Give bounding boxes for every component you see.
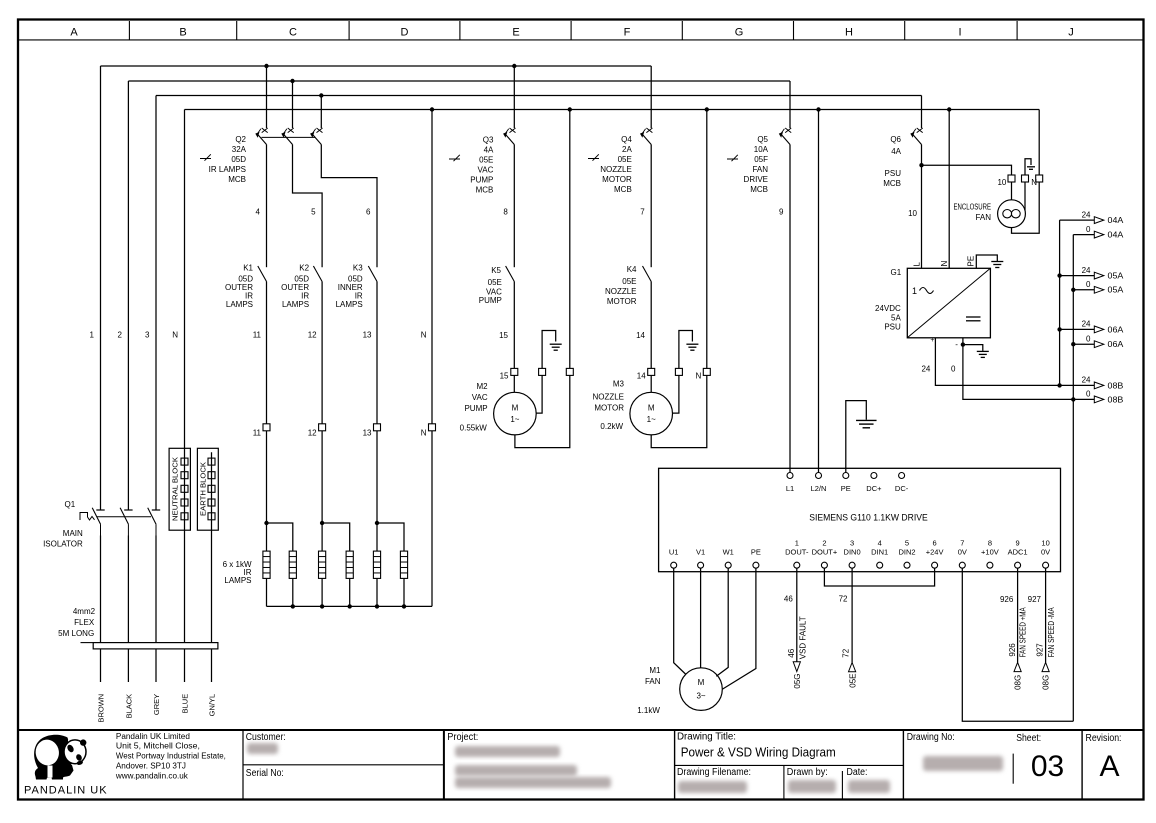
contactor K1 05D OUTER IR LAMPS bbox=[225, 264, 267, 309]
motor M3 NOZZLE MOTOR 0.2kW bbox=[592, 379, 672, 435]
MCB Q3 4A VAC PUMP bbox=[449, 128, 516, 195]
svg-text:PUMP: PUMP bbox=[464, 404, 487, 413]
svg-text:M3: M3 bbox=[613, 379, 625, 388]
off-page reference 08B 24 bbox=[1060, 376, 1124, 391]
svg-text:46: 46 bbox=[784, 594, 793, 603]
svg-text:M: M bbox=[648, 404, 655, 413]
svg-text:DOUT-: DOUT- bbox=[785, 547, 809, 556]
svg-text:N: N bbox=[1031, 178, 1037, 187]
svg-text:MCB: MCB bbox=[228, 175, 246, 184]
svg-text:M: M bbox=[512, 404, 519, 413]
svg-text:BLUE: BLUE bbox=[180, 694, 189, 714]
svg-text:6: 6 bbox=[933, 538, 937, 547]
svg-text:14: 14 bbox=[636, 331, 645, 340]
ground at G1 PE input bbox=[976, 255, 1003, 268]
wire 4 bbox=[256, 145, 267, 268]
wire 8 bbox=[503, 145, 514, 268]
svg-text:PE: PE bbox=[841, 484, 851, 493]
signal wire 927 FAN SPEED -MA from 08G bbox=[1028, 568, 1057, 690]
drive terminal PE bbox=[751, 547, 761, 568]
svg-text:L: L bbox=[912, 262, 921, 267]
terminal N M2 bbox=[566, 368, 573, 375]
svg-text:Date:: Date: bbox=[847, 767, 868, 778]
svg-text:-: - bbox=[955, 340, 958, 349]
svg-text:GN/YL: GN/YL bbox=[207, 694, 216, 717]
svg-text:D: D bbox=[401, 26, 409, 38]
svg-text:05F: 05F bbox=[754, 155, 768, 164]
svg-text:3: 3 bbox=[850, 538, 854, 547]
svg-text:24: 24 bbox=[1082, 320, 1091, 329]
svg-text:Drawing Filename:: Drawing Filename: bbox=[677, 767, 751, 778]
drive terminal 9 ADC1 bbox=[1008, 538, 1028, 568]
svg-text:NOZZLE: NOZZLE bbox=[592, 392, 624, 401]
drive terminal 5 DIN2 bbox=[898, 538, 915, 568]
ground for M3 earth terminal bbox=[679, 331, 699, 369]
svg-text:LAMPS: LAMPS bbox=[282, 300, 309, 309]
svg-text:10: 10 bbox=[1041, 538, 1049, 547]
svg-text:DIN1: DIN1 bbox=[871, 547, 888, 556]
contactor K4 05E NOZZLE MOTOR bbox=[605, 265, 651, 306]
drive terminal PE bbox=[841, 473, 851, 493]
svg-text:10: 10 bbox=[908, 209, 917, 218]
svg-text:24: 24 bbox=[1082, 210, 1091, 219]
svg-text:N: N bbox=[696, 372, 702, 381]
cable 4mm2 FLEX 5M LONG bbox=[58, 607, 218, 649]
svg-text:MAIN: MAIN bbox=[63, 529, 83, 538]
svg-text:www.pandalin.co.uk: www.pandalin.co.uk bbox=[115, 771, 189, 780]
svg-text:04A: 04A bbox=[1108, 216, 1125, 225]
drive terminal 7 0V bbox=[958, 538, 967, 568]
wire fan supply bbox=[1011, 182, 1013, 200]
svg-text:BROWN: BROWN bbox=[96, 694, 105, 723]
terminal earth M3 bbox=[675, 368, 682, 375]
svg-text:08G: 08G bbox=[1014, 675, 1023, 690]
lamp 6 bbox=[400, 551, 407, 578]
svg-text:926: 926 bbox=[1008, 643, 1017, 657]
drive terminal L1 bbox=[786, 473, 794, 493]
svg-text:EARTH BLOCK: EARTH BLOCK bbox=[199, 462, 208, 516]
svg-text:11: 11 bbox=[253, 429, 262, 438]
svg-text:05A: 05A bbox=[1108, 272, 1125, 281]
lamp 5 bbox=[373, 551, 380, 578]
svg-text:13: 13 bbox=[363, 331, 372, 340]
svg-text:MCB: MCB bbox=[883, 179, 901, 188]
svg-text:ISOLATOR: ISOLATOR bbox=[43, 539, 83, 548]
svg-text:14: 14 bbox=[637, 372, 646, 381]
svg-text:Drawing Title:: Drawing Title: bbox=[677, 731, 736, 742]
customer cell bbox=[246, 732, 286, 779]
svg-text:LAMPS: LAMPS bbox=[336, 300, 363, 309]
svg-text:C: C bbox=[289, 26, 297, 38]
wire drive PE to ground bbox=[846, 401, 867, 473]
drive terminal W1 bbox=[723, 547, 734, 568]
svg-text:IR LAMPS: IR LAMPS bbox=[209, 165, 246, 174]
svg-text:05E: 05E bbox=[479, 155, 493, 164]
svg-text:0.55kW: 0.55kW bbox=[460, 424, 488, 433]
svg-text:+: + bbox=[930, 337, 934, 344]
drive terminal 1 DOUT- bbox=[785, 538, 809, 568]
signal wire 72 from 05E to DIN0 bbox=[839, 568, 858, 688]
svg-text:2: 2 bbox=[822, 538, 826, 547]
wire PE to motor M1 bbox=[723, 568, 756, 689]
title block bbox=[18, 730, 1144, 800]
svg-text:46: 46 bbox=[787, 648, 796, 657]
MCB Q6 4A PSU bbox=[883, 128, 922, 188]
wire from L2 to Q5 bbox=[789, 81, 791, 128]
svg-text:DRIVE: DRIVE bbox=[744, 175, 768, 184]
svg-text:DC-: DC- bbox=[895, 484, 909, 493]
wire 3 GREY below Q1 bbox=[145, 331, 161, 716]
svg-text:GREY: GREY bbox=[152, 694, 161, 715]
svg-text:0: 0 bbox=[951, 364, 956, 373]
svg-text:G: G bbox=[735, 26, 744, 38]
ground for M2 earth terminal bbox=[542, 331, 562, 369]
svg-text:G1: G1 bbox=[891, 268, 902, 277]
wire phase 3 drop to Q1 bbox=[155, 96, 157, 511]
wire drive 0V return loop bbox=[962, 568, 1073, 721]
svg-text:5: 5 bbox=[311, 208, 316, 217]
svg-text:Revision:: Revision: bbox=[1086, 733, 1122, 744]
svg-text:7: 7 bbox=[960, 538, 964, 547]
svg-text:927: 927 bbox=[1028, 595, 1042, 604]
svg-text:08B: 08B bbox=[1108, 395, 1124, 404]
off-page reference 06A 24 bbox=[1060, 320, 1124, 335]
wire M2 neutral return bbox=[515, 375, 570, 447]
svg-text:K1: K1 bbox=[243, 264, 253, 273]
svg-text:BLACK: BLACK bbox=[124, 694, 133, 719]
drive terminal V1 bbox=[696, 547, 705, 568]
svg-text:LAMPS: LAMPS bbox=[224, 576, 251, 585]
logo panda PANDALIN UK bbox=[24, 735, 108, 797]
off-page reference 04A 24 bbox=[1060, 210, 1124, 225]
terminal 11 bbox=[253, 424, 270, 438]
drive terminal 10 0V bbox=[1041, 538, 1050, 568]
off-page reference 06A 0 bbox=[1073, 334, 1124, 349]
svg-text:13: 13 bbox=[363, 429, 372, 438]
svg-text:J: J bbox=[1068, 26, 1074, 38]
svg-text:MCB: MCB bbox=[476, 186, 494, 195]
drive terminal 3 DIN0 bbox=[844, 538, 861, 568]
svg-text:F: F bbox=[624, 26, 631, 38]
wire from L1 to Q4 bbox=[650, 66, 652, 128]
revision cell A bbox=[1086, 733, 1122, 783]
svg-text:Customer:: Customer: bbox=[246, 732, 286, 743]
svg-text:04A: 04A bbox=[1108, 231, 1125, 240]
drive terminal U1 bbox=[669, 547, 679, 568]
ground chassis at fan bbox=[1025, 159, 1035, 175]
wire L1 phase bus bbox=[101, 64, 652, 68]
drive terminal DC- bbox=[895, 473, 909, 493]
wire M3 neutral return bbox=[651, 375, 707, 447]
svg-text:5: 5 bbox=[905, 538, 909, 547]
svg-text:VAC: VAC bbox=[472, 393, 488, 402]
svg-text:2: 2 bbox=[118, 331, 123, 340]
svg-text:PUMP: PUMP bbox=[470, 176, 493, 185]
svg-text:K4: K4 bbox=[627, 265, 637, 274]
svg-text:NOZZLE: NOZZLE bbox=[605, 287, 637, 296]
terminal earth M2 bbox=[539, 368, 546, 375]
svg-text:15: 15 bbox=[500, 372, 509, 381]
drive terminal 2 DOUT+ bbox=[812, 538, 838, 568]
enclosure fan terminals 10 and N bbox=[997, 175, 1042, 187]
wire drive L2/N from neutral bus bbox=[818, 110, 820, 473]
svg-text:MOTOR: MOTOR bbox=[594, 403, 624, 412]
svg-text:MCB: MCB bbox=[750, 185, 768, 194]
lamp bank 6 x 1kW IR LAMPS wiring bbox=[223, 431, 432, 609]
wire branch to enclosure fan bbox=[922, 165, 1012, 175]
svg-text:05E: 05E bbox=[849, 674, 858, 688]
svg-text:N: N bbox=[421, 331, 427, 340]
svg-text:1: 1 bbox=[90, 331, 95, 340]
svg-text:1: 1 bbox=[912, 286, 917, 296]
off-page reference 08B 0 bbox=[1073, 390, 1123, 405]
svg-text:Q4: Q4 bbox=[621, 135, 632, 144]
svg-text:Drawn by:: Drawn by: bbox=[787, 767, 828, 778]
terminal N bbox=[421, 424, 436, 438]
svg-text:FAN SPEED -MA: FAN SPEED -MA bbox=[1047, 607, 1056, 658]
svg-text:MOTOR: MOTOR bbox=[607, 297, 637, 306]
svg-text:DIN0: DIN0 bbox=[844, 547, 861, 556]
svg-text:LAMPS: LAMPS bbox=[226, 300, 253, 309]
wire 7 bbox=[640, 145, 651, 268]
svg-text:Q3: Q3 bbox=[483, 135, 494, 144]
contactor K2 05D OUTER IR LAMPS bbox=[281, 264, 322, 309]
svg-text:5A: 5A bbox=[891, 314, 901, 323]
svg-text:4: 4 bbox=[878, 538, 882, 547]
svg-text:Q6: Q6 bbox=[890, 135, 901, 144]
MCB Q4 2A NOZZLE MOTOR bbox=[588, 128, 652, 194]
svg-text:15: 15 bbox=[499, 331, 508, 340]
svg-text:FAN SPEED +MA: FAN SPEED +MA bbox=[1019, 607, 1028, 658]
svg-text:72: 72 bbox=[839, 594, 848, 603]
wire M3 supply bbox=[650, 375, 652, 392]
svg-text:5M LONG: 5M LONG bbox=[58, 629, 94, 638]
svg-text:08B: 08B bbox=[1108, 381, 1124, 390]
svg-text:ADC1: ADC1 bbox=[1008, 547, 1028, 556]
wire from L1 to Q3 bbox=[513, 66, 515, 128]
svg-text:0V: 0V bbox=[958, 547, 967, 556]
svg-text:10: 10 bbox=[997, 178, 1006, 187]
svg-text:1~: 1~ bbox=[510, 415, 519, 424]
svg-text:K5: K5 bbox=[491, 266, 501, 275]
wire M2 supply bbox=[513, 375, 515, 392]
wire fan neutral return bbox=[1012, 182, 1040, 233]
lamp 4 bbox=[346, 551, 353, 578]
wire N BLUE through neutral block bbox=[172, 110, 189, 714]
svg-text:24: 24 bbox=[1082, 266, 1091, 275]
wire U1 to motor M1 bbox=[674, 568, 686, 674]
drive terminal 8 +10V bbox=[981, 538, 999, 568]
wire 13 bbox=[363, 282, 377, 424]
ground at G1 0V output bbox=[963, 345, 989, 358]
contactor K5 05E VAC PUMP bbox=[479, 266, 515, 305]
wire phase 2 drop to Q1 bbox=[127, 81, 129, 510]
svg-text:11: 11 bbox=[253, 331, 262, 340]
wire 6 bbox=[321, 145, 377, 268]
svg-text:NEUTRAL BLOCK: NEUTRAL BLOCK bbox=[170, 457, 179, 521]
MCB Q5 10A FAN DRIVE bbox=[727, 128, 791, 194]
svg-text:Andover. SP10 3TJ: Andover. SP10 3TJ bbox=[116, 762, 186, 771]
svg-text:Q5: Q5 bbox=[757, 135, 768, 144]
drive terminal L2/N bbox=[811, 473, 827, 493]
svg-text:4A: 4A bbox=[484, 146, 494, 155]
svg-text:PE: PE bbox=[751, 547, 761, 556]
wire N drop to M3 bbox=[706, 110, 708, 369]
terminal block NEUTRAL BLOCK bbox=[169, 448, 190, 530]
isolator Q1 MAIN ISOLATOR bbox=[43, 500, 160, 549]
wire 1 BROWN below Q1 bbox=[90, 331, 106, 723]
svg-text:N: N bbox=[172, 331, 178, 340]
svg-text:N: N bbox=[940, 261, 949, 267]
svg-text:05A: 05A bbox=[1108, 286, 1125, 295]
svg-text:9: 9 bbox=[779, 208, 784, 217]
svg-text:A: A bbox=[70, 26, 78, 38]
svg-text:E: E bbox=[512, 26, 519, 38]
svg-text:M1: M1 bbox=[649, 666, 661, 675]
signal wire 926 FAN SPEED +MA from 08G bbox=[1000, 568, 1028, 690]
svg-text:ENCLOSURE: ENCLOSURE bbox=[954, 203, 992, 212]
off-page reference 05A 24 bbox=[1060, 266, 1124, 281]
svg-text:SIEMENS G110 1.1KW DRIVE: SIEMENS G110 1.1KW DRIVE bbox=[809, 512, 928, 523]
svg-text:1: 1 bbox=[795, 538, 799, 547]
wire N drop to PSU G1 bbox=[948, 110, 950, 269]
svg-text:MOTOR: MOTOR bbox=[602, 175, 632, 184]
svg-text:06A: 06A bbox=[1108, 340, 1125, 349]
svg-text:24: 24 bbox=[1082, 376, 1091, 385]
svg-text:32A: 32A bbox=[232, 145, 247, 154]
svg-text:1.1kW: 1.1kW bbox=[637, 706, 660, 715]
company address bbox=[115, 732, 226, 781]
wire W1 to motor M1 bbox=[716, 568, 728, 676]
svg-text:72: 72 bbox=[842, 648, 851, 657]
svg-text:I: I bbox=[958, 26, 961, 38]
wire 5 bbox=[293, 145, 323, 268]
sheet cell 03 bbox=[1016, 733, 1064, 783]
motor M2 VAC PUMP 0.55kW bbox=[460, 382, 537, 435]
svg-text:+10V: +10V bbox=[981, 547, 999, 556]
svg-text:PUMP: PUMP bbox=[479, 296, 502, 305]
drawing title cell bbox=[677, 731, 890, 793]
svg-text:03: 03 bbox=[1031, 750, 1064, 783]
drive terminal 4 DIN1 bbox=[871, 538, 888, 568]
svg-text:05E: 05E bbox=[488, 278, 502, 287]
wire V1 to motor M1 bbox=[700, 568, 702, 668]
wire 2 BLACK below Q1 bbox=[118, 331, 134, 719]
wire 24V distribution bus bbox=[1057, 220, 1061, 387]
svg-text:DIN2: DIN2 bbox=[898, 547, 915, 556]
svg-text:L2/N: L2/N bbox=[811, 484, 827, 493]
motor M1 FAN 1.1kW bbox=[637, 666, 722, 715]
svg-text:DC+: DC+ bbox=[866, 484, 882, 493]
svg-text:Q2: Q2 bbox=[235, 135, 246, 144]
svg-text:12: 12 bbox=[308, 331, 317, 340]
svg-text:West Portway Industrial Estate: West Portway Industrial Estate, bbox=[116, 752, 226, 761]
svg-text:FAN: FAN bbox=[645, 677, 661, 686]
svg-text:Sheet:: Sheet: bbox=[1016, 733, 1041, 744]
svg-text:PE: PE bbox=[966, 256, 975, 267]
wire earth GN/YL bbox=[207, 452, 216, 716]
drive terminal 6 +24V bbox=[926, 538, 944, 568]
svg-text:06A: 06A bbox=[1108, 325, 1125, 334]
svg-text:10A: 10A bbox=[754, 145, 769, 154]
psu G1 24VDC 5A bbox=[875, 256, 990, 338]
MCB Q2 32A IR LAMPS 3-pole bbox=[200, 128, 323, 184]
wire 0 from G1 minus with ground junction bbox=[951, 338, 1073, 400]
svg-text:0: 0 bbox=[1086, 280, 1091, 289]
svg-text:FAN: FAN bbox=[975, 213, 991, 222]
ground at drive PE bbox=[856, 420, 877, 427]
svg-text:7: 7 bbox=[640, 208, 645, 217]
wire L2 phase bus bbox=[128, 79, 790, 83]
svg-text:PANDALIN UK: PANDALIN UK bbox=[24, 785, 108, 797]
terminal 14 M3 bbox=[637, 368, 655, 380]
svg-text:05E: 05E bbox=[622, 277, 636, 286]
svg-text:M: M bbox=[698, 678, 705, 687]
svg-text:VSD FAULT: VSD FAULT bbox=[799, 616, 808, 659]
lamp 2 bbox=[289, 551, 296, 578]
svg-text:M2: M2 bbox=[476, 382, 488, 391]
svg-text:926: 926 bbox=[1000, 595, 1014, 604]
svg-text:H: H bbox=[845, 26, 853, 38]
svg-text:PSU: PSU bbox=[885, 169, 902, 178]
wire N neutral bus bbox=[185, 107, 1040, 111]
svg-text:8: 8 bbox=[503, 208, 508, 217]
svg-text:A: A bbox=[1099, 750, 1119, 783]
wire from L3 to Q2 pole3 bbox=[320, 96, 322, 129]
svg-text:Unit 5, Mitchell Close,: Unit 5, Mitchell Close, bbox=[116, 742, 200, 751]
svg-text:24: 24 bbox=[921, 364, 930, 373]
svg-text:0: 0 bbox=[1086, 390, 1091, 399]
svg-text:24VDC: 24VDC bbox=[875, 304, 901, 313]
svg-text:Serial No:: Serial No: bbox=[246, 768, 284, 779]
svg-text:05E: 05E bbox=[618, 155, 632, 164]
terminal N M3 bbox=[696, 368, 711, 380]
svg-text:4: 4 bbox=[256, 208, 261, 217]
svg-text:N: N bbox=[421, 429, 427, 438]
svg-text:L1: L1 bbox=[786, 484, 794, 493]
svg-text:U1: U1 bbox=[669, 547, 679, 556]
svg-text:4A: 4A bbox=[891, 147, 901, 156]
svg-text:+24V: +24V bbox=[926, 547, 944, 556]
lamp 3 bbox=[319, 551, 326, 578]
wire 24 from G1 plus bbox=[921, 337, 1059, 386]
svg-text:Pandalin UK Limited: Pandalin UK Limited bbox=[116, 732, 190, 741]
lamp 1 bbox=[263, 551, 270, 578]
terminal 13 bbox=[363, 424, 381, 438]
svg-text:FLEX: FLEX bbox=[74, 618, 95, 627]
svg-text:Power & VSD Wiring Diagram: Power & VSD Wiring Diagram bbox=[681, 745, 836, 760]
svg-text:W1: W1 bbox=[723, 547, 734, 556]
wire M3 chassis earth bbox=[673, 375, 679, 413]
svg-text:K2: K2 bbox=[299, 264, 309, 273]
terminal 15 M2 bbox=[500, 368, 518, 380]
wire N drop to M2 bbox=[569, 110, 571, 369]
wire from L3 to Q6 bbox=[921, 96, 923, 129]
svg-text:V1: V1 bbox=[696, 547, 705, 556]
svg-text:Drawing No:: Drawing No: bbox=[907, 732, 955, 743]
svg-text:MCB: MCB bbox=[614, 185, 632, 194]
wire from L1 to Q2 pole1 bbox=[266, 66, 268, 128]
svg-text:0.2kW: 0.2kW bbox=[600, 422, 623, 431]
svg-text:K3: K3 bbox=[353, 264, 363, 273]
svg-text:Project:: Project: bbox=[447, 732, 478, 743]
svg-text:8: 8 bbox=[988, 538, 992, 547]
wire N end drop to fan bbox=[1038, 110, 1040, 176]
svg-text:1~: 1~ bbox=[647, 415, 656, 424]
off-page reference 04A 0 bbox=[1073, 225, 1124, 240]
svg-text:9: 9 bbox=[1016, 538, 1020, 547]
signal wire 46 VSD FAULT to 05G bbox=[784, 568, 808, 688]
